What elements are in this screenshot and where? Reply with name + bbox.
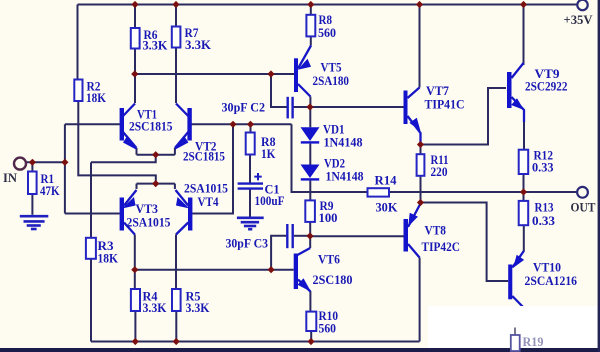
svg-text:0.33: 0.33 bbox=[532, 160, 554, 175]
svg-text:18K: 18K bbox=[86, 90, 107, 105]
svg-text:R14: R14 bbox=[375, 173, 397, 188]
svg-text:30K: 30K bbox=[376, 200, 399, 215]
svg-text:VT8: VT8 bbox=[425, 223, 447, 238]
svg-text:18K: 18K bbox=[98, 251, 119, 266]
svg-text:100uF: 100uF bbox=[255, 193, 285, 208]
svg-text:1N4148: 1N4148 bbox=[326, 169, 364, 184]
svg-text:2SC1815: 2SC1815 bbox=[183, 149, 225, 164]
svg-text:2SA1015: 2SA1015 bbox=[127, 215, 171, 230]
svg-text:2SC180: 2SC180 bbox=[313, 272, 353, 287]
svg-text:2SCA1216: 2SCA1216 bbox=[525, 273, 578, 288]
svg-text:R19: R19 bbox=[523, 334, 544, 349]
svg-text:3.3K: 3.3K bbox=[186, 300, 211, 315]
svg-text:100: 100 bbox=[319, 210, 338, 225]
svg-text:560: 560 bbox=[319, 321, 337, 336]
svg-text:560: 560 bbox=[318, 25, 336, 40]
svg-text:3.3K: 3.3K bbox=[143, 300, 168, 315]
svg-text:+35V: +35V bbox=[564, 13, 593, 27]
svg-text:1K: 1K bbox=[261, 146, 276, 161]
svg-text:1N4148: 1N4148 bbox=[324, 135, 363, 150]
svg-text:30pF C3: 30pF C3 bbox=[226, 236, 269, 251]
svg-text:OUT: OUT bbox=[571, 200, 596, 215]
svg-text:3.3K: 3.3K bbox=[185, 37, 212, 52]
svg-text:VT6: VT6 bbox=[318, 252, 340, 267]
svg-text:VT4: VT4 bbox=[198, 194, 219, 209]
svg-text:2SC1815: 2SC1815 bbox=[129, 119, 173, 134]
svg-text:0.33: 0.33 bbox=[532, 213, 556, 228]
svg-text:30pF C2: 30pF C2 bbox=[222, 100, 266, 115]
svg-text:2SC2922: 2SC2922 bbox=[525, 79, 568, 94]
svg-text:2SA180: 2SA180 bbox=[313, 73, 350, 88]
svg-text:220: 220 bbox=[431, 164, 448, 179]
svg-text:IN: IN bbox=[3, 170, 18, 185]
svg-text:TIP41C: TIP41C bbox=[425, 97, 465, 112]
svg-text:47K: 47K bbox=[40, 183, 60, 198]
svg-text:3.3K: 3.3K bbox=[143, 38, 169, 53]
svg-text:TIP42C: TIP42C bbox=[422, 239, 461, 254]
